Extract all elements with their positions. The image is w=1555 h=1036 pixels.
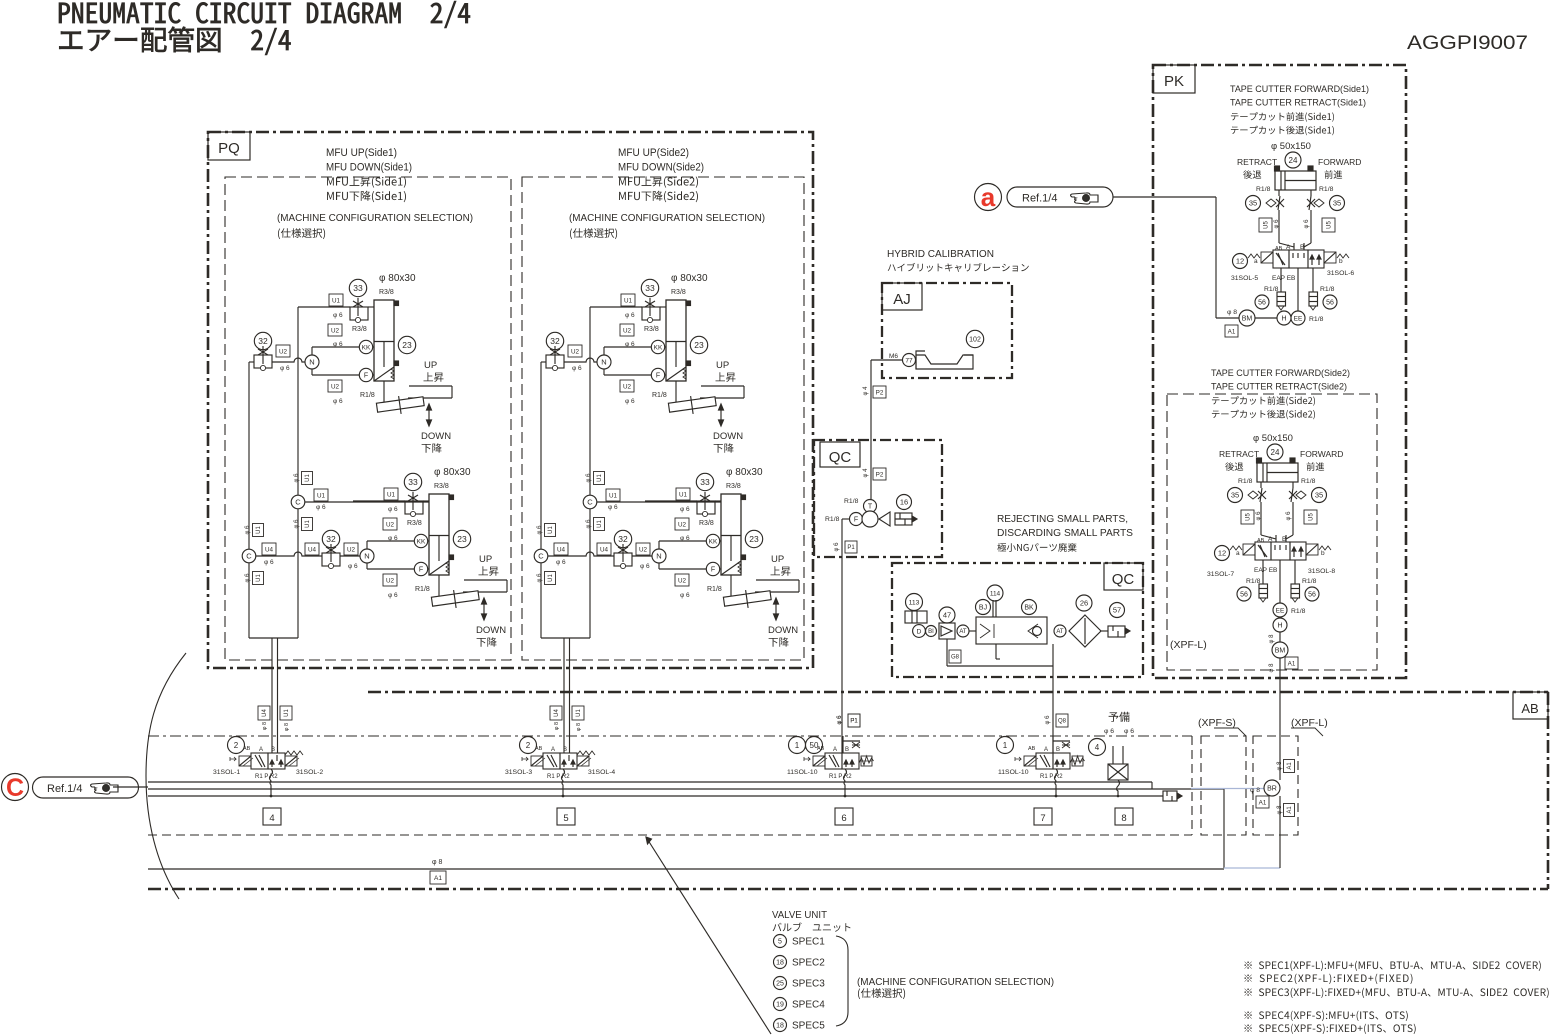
svg-text:U4: U4	[265, 546, 274, 553]
QC section box lower	[892, 563, 1143, 677]
svg-text:MFU DOWN(Side2): MFU DOWN(Side2)	[618, 162, 704, 174]
svg-text:QC: QC	[1112, 571, 1135, 588]
svg-text:4: 4	[1095, 743, 1100, 752]
svg-text:4: 4	[269, 813, 274, 824]
svg-text:BR: BR	[1267, 786, 1277, 793]
svg-text:QC: QC	[829, 449, 852, 466]
svg-text:31SOL-7: 31SOL-7	[1207, 571, 1234, 578]
svg-text:A: A	[259, 747, 263, 753]
svg-text:U1: U1	[305, 520, 311, 528]
QC2 amplifier 47	[939, 607, 955, 623]
PQ label	[208, 132, 250, 160]
svg-text:φ 6: φ 6	[245, 525, 251, 535]
side1 upper throttle 32	[254, 332, 290, 372]
svg-text:U1: U1	[305, 474, 311, 482]
tape cutter assembly side2	[1215, 444, 1344, 603]
svg-text:11SOL-10: 11SOL-10	[998, 769, 1029, 776]
svg-text:U1: U1	[548, 574, 554, 582]
svg-text:C: C	[295, 498, 301, 507]
svg-text:31SOL-2: 31SOL-2	[296, 769, 323, 776]
svg-text:A1: A1	[1287, 762, 1293, 770]
svg-text:(XPF-S): (XPF-S)	[1198, 717, 1236, 729]
svg-text:H: H	[1277, 623, 1282, 630]
svg-text:8: 8	[1121, 813, 1126, 824]
svg-text:AB: AB	[535, 746, 543, 752]
svg-text:H: H	[1281, 316, 1286, 323]
svg-text:φ 8: φ 8	[1227, 309, 1237, 316]
ref a hand glyph	[1071, 193, 1099, 204]
svg-text:AT: AT	[1056, 629, 1064, 635]
side2 interconnect wiring	[589, 307, 591, 495]
QC2 filter 26	[1069, 615, 1101, 647]
tape cutter assembly side1	[1233, 152, 1362, 311]
svg-text:P1: P1	[847, 545, 855, 551]
side1 machine-selection dashed box	[225, 177, 511, 660]
side1 lower wiring	[297, 509, 299, 638]
side2 lower wiring	[589, 509, 591, 638]
svg-text:A: A	[551, 747, 555, 753]
spec number boxes	[263, 808, 281, 825]
ref C bubble	[2, 774, 29, 801]
svg-text:REJECTING SMALL PARTS,: REJECTING SMALL PARTS,	[997, 514, 1128, 525]
side2 upper throttle 32	[546, 332, 582, 372]
svg-text:A: A	[1044, 747, 1048, 753]
ref line from a to BM	[1113, 196, 1216, 198]
QC2 D BI circles	[913, 625, 926, 638]
svg-text:U1: U1	[597, 520, 603, 528]
QC2 AT	[957, 625, 969, 637]
svg-text:C: C	[246, 552, 252, 561]
diagonal pointer line	[646, 837, 771, 1034]
svg-text:φ 8: φ 8	[554, 722, 560, 730]
svg-text:18: 18	[776, 1023, 784, 1030]
svg-text:Ref.1/4: Ref.1/4	[47, 783, 82, 795]
svg-text:U4: U4	[262, 709, 268, 717]
side2 node C upper	[583, 495, 597, 509]
svg-text:φ 6: φ 6	[294, 473, 300, 483]
svg-text:102: 102	[969, 337, 981, 344]
svg-text:R1/8: R1/8	[1309, 316, 1324, 323]
svg-text:2: 2	[526, 741, 531, 750]
svg-text:φ 4: φ 4	[863, 468, 869, 478]
svg-text:AJ: AJ	[893, 291, 911, 308]
svg-text:φ 8: φ 8	[576, 723, 582, 731]
svg-text:31SOL-6: 31SOL-6	[1327, 270, 1354, 277]
svg-text:U1: U1	[256, 574, 262, 582]
svg-text:B: B	[1056, 747, 1060, 753]
svg-text:BJ: BJ	[979, 605, 987, 612]
svg-text:φ 6: φ 6	[837, 715, 843, 725]
page title	[59, 1, 470, 28]
svg-text:25: 25	[776, 981, 784, 988]
spare valve 4	[1089, 739, 1106, 756]
tape cutter side1 port circles EE H BM	[1291, 311, 1305, 325]
QC2 vacuum drop	[995, 644, 997, 659]
svg-text:47: 47	[943, 611, 951, 620]
svg-text:P2: P2	[876, 389, 884, 396]
svg-text:T: T	[868, 504, 873, 511]
svg-text:U1: U1	[576, 709, 582, 717]
svg-text:7: 7	[1040, 813, 1045, 824]
svg-text:M6: M6	[889, 353, 898, 360]
bus line 4	[148, 868, 1224, 870]
QC section box upper	[814, 440, 942, 557]
calibration cylinder 102	[966, 330, 983, 347]
QC2 AT 2	[1054, 625, 1066, 637]
svg-text:F: F	[854, 517, 858, 524]
svg-text:U4: U4	[554, 709, 560, 717]
svg-text:φ 6: φ 6	[245, 573, 251, 583]
svg-text:114: 114	[990, 590, 1001, 597]
svg-text:(MACHINE CONFIGURATION SELECTI: (MACHINE CONFIGURATION SELECTION)	[277, 212, 473, 224]
svg-text:B: B	[271, 747, 275, 753]
svg-text:U4: U4	[557, 546, 566, 553]
svg-text:φ 8: φ 8	[432, 859, 442, 866]
svg-text:19: 19	[776, 1002, 784, 1009]
svg-text:AB: AB	[1521, 701, 1538, 716]
side1 drop lines to valve unit	[271, 638, 273, 753]
svg-text:R1 P R2: R1 P R2	[829, 774, 852, 780]
P1 label above station a	[848, 714, 860, 727]
PK section box	[1153, 65, 1406, 678]
svg-text:BK: BK	[1024, 605, 1034, 612]
x-throttle above station b	[1052, 736, 1054, 753]
MFU cylinder assembly side1 lower	[353, 467, 507, 647]
svg-text:TAPE CUTTER RETRACT(Side1): TAPE CUTTER RETRACT(Side1)	[1230, 98, 1366, 108]
x-throttle above station a	[842, 736, 844, 753]
svg-text:B: B	[845, 747, 849, 753]
svg-text:1: 1	[1003, 741, 1008, 750]
side2 lower throttle 32	[614, 530, 650, 570]
svg-text:R1/8: R1/8	[844, 498, 859, 505]
QC2 drain route	[946, 639, 948, 666]
svg-text:R1 P R2: R1 P R2	[255, 774, 278, 780]
svg-text:U1: U1	[256, 526, 262, 534]
svg-text:VALVE UNIT: VALVE UNIT	[772, 909, 828, 921]
AJ section box	[882, 283, 1012, 378]
svg-text:18: 18	[776, 960, 784, 967]
XPF-L dashed box	[1253, 736, 1298, 835]
valve station 31SOL-3/4	[522, 751, 595, 769]
svg-text:AB: AB	[1028, 746, 1036, 752]
svg-text:φ 8: φ 8	[284, 723, 290, 731]
svg-text:φ 8: φ 8	[1250, 787, 1260, 794]
svg-text:φ 6: φ 6	[537, 573, 543, 583]
svg-text:31SOL-4: 31SOL-4	[588, 769, 615, 776]
svg-text:φ 6: φ 6	[537, 525, 543, 535]
PK label	[1153, 65, 1195, 93]
spec notes	[1244, 961, 1540, 971]
svg-text:11SOL-10: 11SOL-10	[787, 769, 818, 776]
svg-text:P2: P2	[876, 471, 884, 478]
svg-text:U1: U1	[597, 474, 603, 482]
svg-text:A1: A1	[1287, 806, 1293, 814]
svg-text:BI: BI	[928, 629, 934, 635]
QC1 outlet wire	[842, 518, 849, 520]
svg-text:U4: U4	[308, 546, 317, 553]
valve station 11SOL-10 b	[1015, 753, 1085, 769]
port 77	[903, 354, 916, 367]
svg-text:(MACHINE CONFIGURATION SELECTI: (MACHINE CONFIGURATION SELECTION)	[857, 976, 1054, 988]
svg-text:PQ: PQ	[218, 140, 240, 157]
bus line 2	[148, 788, 1224, 790]
svg-text:Ref.1/4: Ref.1/4	[1022, 193, 1057, 205]
svg-text:U1: U1	[548, 526, 554, 534]
page title japanese	[59, 27, 290, 55]
QC2 internals - grid 113	[906, 594, 923, 611]
svg-text:57: 57	[1113, 606, 1121, 615]
QC label upper	[820, 442, 860, 467]
svg-text:(XPF-L): (XPF-L)	[1170, 639, 1207, 651]
svg-text:31SOL-8: 31SOL-8	[1308, 568, 1335, 575]
svg-text:φ 6: φ 6	[316, 504, 326, 511]
svg-text:DISCARDING SMALL PARTS: DISCARDING SMALL PARTS	[997, 528, 1133, 539]
svg-text:TAPE CUTTER FORWARD(Side1): TAPE CUTTER FORWARD(Side1)	[1230, 84, 1369, 94]
svg-text:31SOL-5: 31SOL-5	[1231, 275, 1258, 282]
svg-text:φ 4: φ 4	[863, 386, 869, 396]
MFU cylinder assembly side1 upper	[298, 273, 452, 453]
svg-text:Q8: Q8	[1058, 719, 1067, 725]
svg-text:φ 50x150: φ 50x150	[1271, 141, 1311, 152]
side2 node C lower	[534, 549, 548, 563]
PQ section box	[208, 132, 813, 668]
svg-text:φ 6: φ 6	[1124, 728, 1134, 735]
svg-text:G8: G8	[951, 655, 960, 661]
svg-text:AT: AT	[959, 629, 967, 635]
svg-text:TAPE CUTTER FORWARD(Side2): TAPE CUTTER FORWARD(Side2)	[1211, 368, 1350, 378]
svg-text:C: C	[587, 498, 593, 507]
svg-text:BM: BM	[1242, 316, 1253, 323]
MFU cylinder assembly side2 upper	[590, 273, 744, 453]
svg-text:R1 P R2: R1 P R2	[1040, 774, 1063, 780]
tape cutter side2 dashed box	[1167, 394, 1377, 670]
svg-text:SPEC1: SPEC1	[792, 937, 825, 948]
svg-text:AB: AB	[243, 746, 251, 752]
svg-text:TAPE CUTTER RETRACT(Side2): TAPE CUTTER RETRACT(Side2)	[1211, 382, 1347, 392]
svg-text:φ 8: φ 8	[1269, 634, 1275, 644]
tape cutter side2 port circles EE H BM	[1279, 603, 1281, 780]
svg-text:φ 6: φ 6	[608, 504, 618, 511]
svg-text:φ 6: φ 6	[556, 559, 566, 566]
bus line 1	[148, 781, 1152, 783]
svg-text:C: C	[6, 774, 24, 802]
svg-text:(XPF-L): (XPF-L)	[1291, 717, 1328, 729]
svg-text:U1: U1	[609, 492, 618, 499]
left brace curve	[146, 653, 186, 899]
svg-text:31SOL-1: 31SOL-1	[213, 769, 240, 776]
svg-text:φ 8: φ 8	[1269, 663, 1275, 673]
svg-text:SPEC3: SPEC3	[792, 979, 825, 990]
svg-text:φ 6: φ 6	[264, 559, 274, 566]
svg-text:1: 1	[795, 741, 800, 750]
svg-text:A1: A1	[1228, 328, 1236, 335]
QC2 muffler 57	[1101, 630, 1108, 632]
svg-text:(MACHINE CONFIGURATION SELECTI: (MACHINE CONFIGURATION SELECTION)	[569, 212, 765, 224]
svg-text:D: D	[917, 628, 922, 635]
svg-text:φ 6: φ 6	[294, 519, 300, 529]
Q8 label above station b	[1056, 714, 1068, 727]
AB label	[1513, 692, 1548, 719]
svg-text:R1/8: R1/8	[1291, 608, 1306, 615]
svg-text:6: 6	[841, 813, 846, 824]
svg-text:U4: U4	[600, 546, 609, 553]
svg-text:R1 P R2: R1 P R2	[547, 774, 570, 780]
valve unit bracket	[836, 936, 848, 1026]
svg-text:MFU DOWN(Side1): MFU DOWN(Side1)	[326, 162, 412, 174]
svg-text:U1: U1	[317, 492, 326, 499]
svg-text:φ 8: φ 8	[1277, 761, 1283, 771]
svg-text:77: 77	[905, 357, 913, 364]
side1 node C lower	[242, 549, 256, 563]
svg-text:A: A	[833, 747, 837, 753]
svg-text:φ 6: φ 6	[1104, 728, 1114, 735]
svg-text:2: 2	[234, 741, 239, 750]
svg-text:BM: BM	[1275, 648, 1286, 655]
svg-text:MFU UP(Side1): MFU UP(Side1)	[326, 147, 397, 159]
svg-text:A1: A1	[1288, 660, 1296, 667]
valve station 11SOL-10 a	[804, 753, 874, 769]
svg-text:φ 6: φ 6	[586, 473, 592, 483]
svg-text:a: a	[981, 182, 996, 212]
side1 interconnect wiring	[297, 307, 299, 495]
wire AJ to QC	[870, 360, 872, 499]
svg-text:PK: PK	[1164, 73, 1184, 90]
valve station 31SOL-1/2	[230, 751, 303, 769]
svg-text:AGGPI9007: AGGPI9007	[1407, 33, 1528, 54]
AB section box	[368, 691, 1548, 694]
svg-text:SPEC5: SPEC5	[792, 1021, 825, 1032]
svg-text:φ 6: φ 6	[586, 519, 592, 529]
QC1 internals	[873, 468, 886, 480]
QC label lower	[1104, 563, 1143, 590]
svg-text:SPEC4: SPEC4	[792, 1000, 825, 1011]
svg-text:A1: A1	[1259, 799, 1267, 806]
svg-text:EE: EE	[1276, 607, 1285, 614]
svg-text:φ 50x150: φ 50x150	[1253, 433, 1293, 444]
MFU cylinder assembly side2 lower	[645, 467, 799, 647]
XPF-S dashed box	[1201, 736, 1246, 835]
bus muffler	[1163, 791, 1177, 801]
svg-text:B: B	[563, 747, 567, 753]
svg-text:U1: U1	[284, 709, 290, 717]
ref C hand glyph	[91, 783, 119, 794]
side2 drop lines to valve unit	[563, 638, 565, 753]
svg-text:113: 113	[909, 599, 920, 606]
svg-text:A1: A1	[434, 875, 442, 882]
svg-text:φ 8: φ 8	[262, 722, 268, 730]
QC2 vacuum generator	[969, 630, 976, 632]
svg-text:φ 6: φ 6	[1045, 715, 1051, 725]
svg-text:MFU UP(Side2): MFU UP(Side2)	[618, 147, 689, 159]
svg-text:C: C	[538, 552, 544, 561]
svg-text:5: 5	[778, 939, 782, 946]
svg-text:R1/8: R1/8	[825, 516, 840, 523]
svg-text:16: 16	[900, 498, 908, 507]
side2 machine-selection dashed box	[522, 177, 804, 660]
svg-text:5: 5	[563, 813, 568, 824]
svg-text:AB: AB	[817, 746, 825, 752]
svg-text:P1: P1	[850, 719, 858, 725]
BR connector	[1264, 780, 1280, 796]
ref a bubble	[975, 184, 1002, 211]
svg-text:SPEC2: SPEC2	[792, 958, 825, 969]
svg-text:HYBRID CALIBRATION: HYBRID CALIBRATION	[887, 249, 994, 260]
svg-text:31SOL-3: 31SOL-3	[505, 769, 532, 776]
svg-text:φ 6: φ 6	[834, 542, 840, 552]
AJ label	[882, 283, 922, 310]
svg-text:26: 26	[1080, 599, 1088, 608]
bus line 3	[148, 795, 1163, 797]
side1 lower throttle 32	[322, 530, 358, 570]
svg-text:EE: EE	[1294, 315, 1303, 322]
valve unit dashed enclosure	[148, 735, 1192, 737]
bus line 2 blue tail	[1191, 788, 1264, 790]
side1 node C upper	[291, 495, 305, 509]
